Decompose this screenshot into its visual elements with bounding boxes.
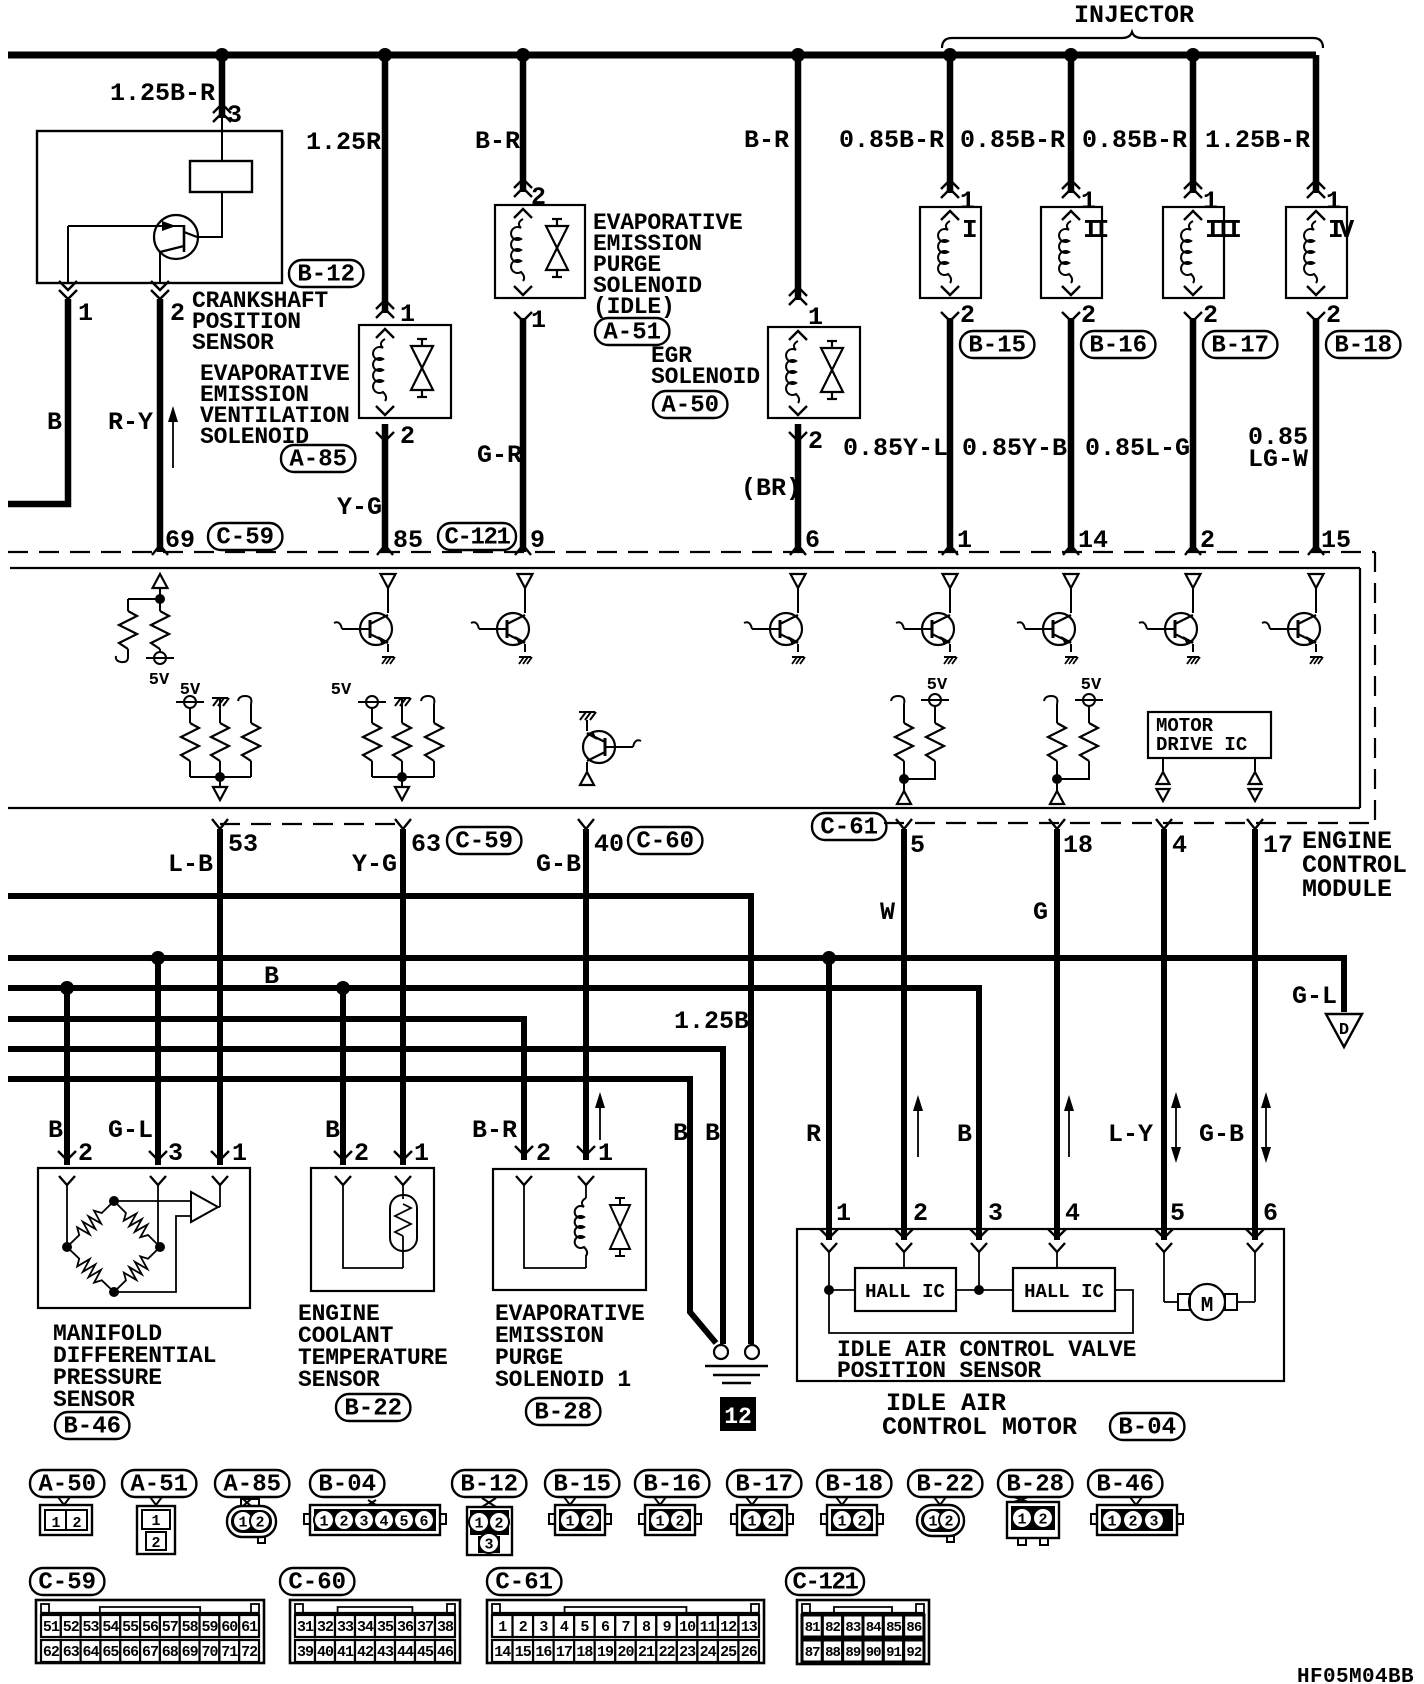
svg-text:0.85B-R: 0.85B-R: [1082, 126, 1187, 155]
svg-text:2: 2: [808, 427, 823, 456]
svg-text:2: 2: [170, 299, 185, 328]
svg-text:D: D: [1339, 1021, 1349, 1040]
svg-text:85: 85: [886, 1620, 901, 1636]
svg-text:1: 1: [1017, 1512, 1026, 1529]
svg-text:C-61: C-61: [820, 815, 878, 842]
engine control module dashed border bottom segments: [220, 823, 403, 825]
svg-text:1.25B-R: 1.25B-R: [110, 79, 215, 108]
bridge resistor bottom-right: [114, 1247, 160, 1292]
ecm bottom pin 17: [1247, 819, 1263, 829]
svg-text:2: 2: [1326, 301, 1341, 330]
hall ic 1 box: [855, 1268, 956, 1311]
connector A-50 drawing: [58, 1497, 70, 1505]
svg-text:40: 40: [317, 1644, 334, 1661]
svg-text:1: 1: [598, 1139, 613, 1168]
connector pill B-12: [289, 260, 363, 287]
svg-text:4: 4: [1172, 831, 1187, 860]
svg-text:33: 33: [337, 1619, 354, 1636]
svg-text:L-B: L-B: [168, 850, 213, 879]
svg-text:13: 13: [741, 1619, 758, 1636]
pin 2 chevrons injector IV: [1307, 312, 1325, 321]
flow arrow iac pin2: [917, 1103, 919, 1157]
svg-text:81: 81: [805, 1620, 820, 1636]
svg-text:G-B: G-B: [1199, 1120, 1244, 1149]
svg-text:5V: 5V: [149, 671, 170, 690]
svg-text:45: 45: [417, 1644, 434, 1661]
opamp input wiring: [114, 1200, 191, 1202]
svg-text:1: 1: [474, 1516, 483, 1533]
svg-text:1.25B-R: 1.25B-R: [1205, 126, 1310, 155]
svg-text:2: 2: [72, 1515, 81, 1532]
svg-text:G-B: G-B: [536, 850, 581, 879]
svg-text:25: 25: [720, 1644, 737, 1661]
connector pill B-17: [1203, 331, 1277, 358]
svg-text:3: 3: [227, 101, 242, 130]
svg-text:SOLENOID: SOLENOID: [651, 364, 760, 390]
svg-text:1: 1: [78, 299, 93, 328]
svg-text:B-R: B-R: [475, 127, 520, 156]
svg-text:B: B: [673, 1119, 688, 1148]
svg-text:1: 1: [232, 1139, 247, 1168]
motor drive IC box: [1148, 712, 1271, 758]
flow arrow purge pin1: [599, 1100, 601, 1140]
svg-text:DRIVE IC: DRIVE IC: [1156, 734, 1247, 756]
svg-text:1: 1: [319, 1514, 328, 1531]
connector pill B-28: [526, 1398, 600, 1425]
transistor ecm column x=1193: [1186, 574, 1201, 588]
svg-text:71: 71: [221, 1644, 238, 1661]
svg-text:SENSOR: SENSOR: [298, 1367, 380, 1393]
svg-text:B-17: B-17: [1211, 333, 1269, 360]
svg-text:B: B: [705, 1119, 720, 1148]
svg-text:1: 1: [238, 1515, 247, 1532]
wire 1.25B-R bus to injector IV pin 1: [1313, 55, 1320, 193]
connector pill B-15 bottom: [545, 1470, 619, 1497]
svg-text:9: 9: [530, 526, 545, 555]
svg-text:3: 3: [539, 1619, 548, 1636]
connector B-28 drawing: [1014, 1497, 1028, 1502]
svg-text:1: 1: [747, 1514, 756, 1531]
connector pill B-46: [55, 1412, 129, 1439]
wire G pin 18 to iac motor pin 4: [1054, 829, 1060, 1240]
svg-text:58: 58: [182, 1619, 199, 1636]
bus line 6 to ground diagonal: [8, 1079, 716, 1343]
wire injector I pin2 to ECM: [947, 318, 954, 552]
svg-text:9: 9: [663, 1619, 672, 1636]
idle air control motor B-04 box: [797, 1229, 1284, 1381]
connector C-61 drawing: [487, 1600, 764, 1663]
svg-text:6: 6: [419, 1514, 428, 1531]
ground transistor pin85: [382, 656, 394, 658]
svg-text:72: 72: [241, 1644, 258, 1661]
svg-text:32: 32: [317, 1619, 334, 1636]
svg-text:C-59: C-59: [455, 829, 513, 856]
connector B-22 drawing: [934, 1497, 946, 1505]
wire W pin 5 to iac motor pin 2: [901, 829, 907, 1240]
svg-text:20: 20: [617, 1644, 634, 1661]
transistor ecm pin 85: [381, 574, 396, 588]
svg-text:2: 2: [960, 301, 975, 330]
resistor network pin 69: [128, 598, 160, 600]
svg-text:1: 1: [565, 1514, 574, 1531]
svg-text:5: 5: [1170, 1199, 1185, 1228]
svg-text:54: 54: [102, 1619, 119, 1636]
connector C-60 drawing: [290, 1600, 460, 1663]
svg-text:26: 26: [741, 1644, 758, 1661]
injector III coil: [1181, 221, 1194, 283]
svg-text:18: 18: [576, 1644, 593, 1661]
svg-text:C-121: C-121: [792, 1570, 858, 1597]
svg-text:53: 53: [228, 830, 258, 859]
flow arrow up beside R-Y: [172, 414, 174, 468]
svg-text:69: 69: [165, 526, 195, 555]
svg-text:5V: 5V: [331, 681, 352, 700]
ecm pin 69: [152, 545, 168, 555]
ecm pin 6: [790, 545, 806, 555]
svg-text:37: 37: [417, 1619, 433, 1636]
svg-text:B-16: B-16: [1089, 333, 1147, 360]
svg-text:2: 2: [767, 1514, 776, 1531]
svg-text:6: 6: [805, 526, 820, 555]
solenoid coil A-51: [511, 219, 524, 281]
iac motor M: [1189, 1284, 1225, 1320]
svg-text:A-50: A-50: [38, 1472, 96, 1499]
connector pill B-16 bottom: [635, 1470, 709, 1497]
wire 0.85B-R bus to injector III pin 1: [1190, 55, 1197, 193]
svg-text:B-04: B-04: [1118, 1415, 1176, 1442]
svg-text:B-28: B-28: [1006, 1472, 1064, 1499]
evaporative emission purge solenoid 1 B-28 box: [493, 1169, 646, 1290]
svg-text:39: 39: [297, 1644, 314, 1661]
svg-text:POSITION SENSOR: POSITION SENSOR: [837, 1358, 1041, 1384]
svg-text:A-85: A-85: [289, 447, 347, 474]
transistor ecm column x=950: [943, 574, 958, 588]
svg-text:HALL IC: HALL IC: [865, 1281, 945, 1303]
svg-text:12: 12: [724, 1404, 752, 1430]
svg-text:67: 67: [142, 1644, 158, 1661]
manifold differential pressure sensor B-46 box: [38, 1168, 250, 1308]
pin 2 chevrons A-85: [376, 432, 394, 441]
svg-text:2: 2: [519, 1619, 528, 1636]
purge solenoid valve: [610, 1205, 630, 1227]
engine coolant temperature sensor B-22 box: [311, 1168, 434, 1291]
svg-text:51: 51: [43, 1619, 60, 1636]
egr solenoid A-50 box: [768, 327, 860, 418]
bridge resistor bottom-left: [67, 1247, 114, 1292]
svg-text:3: 3: [484, 1537, 493, 1554]
wire emitter to pin 2: [159, 252, 161, 283]
svg-text:1: 1: [151, 1513, 160, 1530]
svg-text:64: 64: [83, 1644, 100, 1661]
crankshaft position sensor B-12 box: [37, 131, 282, 283]
ecm bottom pin 5: [896, 819, 912, 829]
wire pin3 to pickup: [221, 131, 223, 161]
connector pill C-59 bottom-row: [30, 1568, 104, 1595]
pin 2 chevrons: [151, 290, 169, 299]
wire B line3 to coolant sensor pin 2: [340, 988, 346, 1165]
pin 2 chevrons injector III: [1184, 312, 1202, 321]
5V pullup pair for pin 18: [1044, 696, 1057, 704]
injector I box: [920, 207, 981, 298]
pin 2 chevrons EGR: [789, 432, 807, 441]
svg-text:B-22: B-22: [916, 1472, 974, 1499]
svg-text:83: 83: [845, 1620, 860, 1636]
svg-text:42: 42: [357, 1644, 374, 1661]
flow arrows iac pin6: [1265, 1100, 1267, 1155]
solenoid valve A-85: [411, 346, 433, 368]
svg-text:1: 1: [655, 1514, 664, 1531]
svg-text:B-15: B-15: [968, 333, 1026, 360]
svg-text:53: 53: [83, 1619, 100, 1636]
sensor ground bus line 2 to diode D: [8, 958, 1344, 1012]
svg-text:38: 38: [437, 1619, 454, 1636]
ecm bottom pin 4: [1156, 819, 1172, 829]
svg-text:1: 1: [414, 1139, 429, 1168]
injector II box: [1041, 207, 1102, 298]
transistor Q1 inside crankshaft sensor: [154, 215, 198, 259]
svg-text:24: 24: [700, 1644, 717, 1661]
svg-text:HALL IC: HALL IC: [1024, 1281, 1104, 1303]
svg-text:2: 2: [1128, 1514, 1137, 1531]
svg-text:B: B: [48, 1116, 63, 1145]
svg-text:B: B: [325, 1116, 340, 1145]
svg-text:L-Y: L-Y: [1108, 1120, 1153, 1149]
connector pill B-28 bottom: [998, 1470, 1072, 1497]
wire main battery bus: [8, 52, 1316, 59]
solenoid coil EGR: [786, 341, 799, 403]
svg-text:LG-W: LG-W: [1248, 445, 1308, 474]
svg-text:1: 1: [1326, 187, 1341, 216]
chevron inside A-51 top: [514, 209, 532, 218]
svg-text:61: 61: [241, 1619, 258, 1636]
chevron inside EGR top: [789, 331, 807, 340]
svg-text:G-R: G-R: [477, 441, 522, 470]
svg-text:23: 23: [679, 1644, 696, 1661]
svg-text:44: 44: [397, 1644, 414, 1661]
svg-text:2: 2: [494, 1516, 503, 1533]
svg-text:B-16: B-16: [643, 1472, 701, 1499]
connector pill A-85: [281, 445, 355, 472]
pin 1 chevrons mdp: [211, 1151, 229, 1160]
svg-text:59: 59: [201, 1619, 218, 1636]
solenoid valve EGR: [821, 348, 843, 370]
svg-text:4: 4: [560, 1619, 569, 1636]
transistor ecm column x=1316: [1309, 574, 1324, 588]
pin 1 chevrons purge1: [577, 1146, 595, 1155]
connector B-16 drawing: [654, 1497, 666, 1505]
ecm bottom pin 40: [578, 819, 594, 829]
svg-text:B-04: B-04: [318, 1472, 376, 1499]
svg-text:C-59: C-59: [38, 1570, 96, 1597]
svg-text:85: 85: [393, 526, 423, 555]
transistor ecm pin 9: [518, 574, 533, 588]
connector pill A-85 bottom: [215, 1470, 289, 1497]
junction on bus at x=798: [791, 48, 805, 62]
connector A-85 drawing: [241, 1499, 259, 1506]
svg-text:INJECTOR: INJECTOR: [1074, 1, 1194, 30]
transistor ecm pin 40: [580, 712, 586, 720]
svg-text:5V: 5V: [1081, 676, 1102, 695]
chevron inside injector III top: [1184, 211, 1202, 220]
svg-text:15: 15: [515, 1644, 532, 1661]
svg-text:41: 41: [337, 1644, 354, 1661]
wire 1.25R bus to A-85 pin 1: [382, 55, 389, 313]
connector pill C-61 bottom-row: [487, 1568, 561, 1595]
pin 3 chevrons: [213, 104, 231, 113]
junction dots line3: [60, 981, 74, 995]
svg-text:15: 15: [1321, 526, 1351, 555]
svg-text:12: 12: [720, 1619, 737, 1636]
svg-text:70: 70: [201, 1644, 218, 1661]
5V pullup pair for pin 5: [891, 696, 904, 704]
bridge resistor top-left: [67, 1201, 114, 1247]
svg-text:W: W: [880, 898, 895, 927]
svg-text:B-46: B-46: [63, 1414, 121, 1441]
svg-text:2: 2: [1200, 526, 1215, 555]
svg-text:69: 69: [182, 1644, 199, 1661]
svg-text:55: 55: [122, 1619, 139, 1636]
wire Y-G pin 63 to coolant sensor pin 1: [400, 829, 406, 1165]
svg-text:0.85B-R: 0.85B-R: [839, 126, 944, 155]
opamp output wire: [218, 1206, 220, 1208]
svg-text:1: 1: [498, 1619, 507, 1636]
motor drive ic output arrows right: [1254, 758, 1256, 771]
svg-text:B-18: B-18: [1334, 333, 1392, 360]
junction on bus at x=222: [215, 48, 229, 62]
svg-text:2: 2: [675, 1514, 684, 1531]
svg-text:II: II: [1083, 215, 1108, 245]
connector pill B-18 bottom: [817, 1470, 891, 1497]
svg-text:2: 2: [1203, 301, 1218, 330]
svg-text:5: 5: [910, 831, 925, 860]
svg-text:21: 21: [638, 1644, 655, 1661]
svg-text:22: 22: [659, 1644, 676, 1661]
svg-text:89: 89: [845, 1645, 860, 1661]
pin 1 chevrons A-51: [514, 312, 532, 321]
pin 3 chevrons mdp: [149, 1151, 167, 1160]
svg-text:40: 40: [594, 830, 624, 859]
svg-text:C-59: C-59: [216, 525, 274, 552]
junction on bus at x=523: [516, 48, 530, 62]
engine control module dashed border top: [8, 551, 1375, 553]
iac pins chevrons: [820, 1229, 838, 1238]
connector pill B-22 bottom: [908, 1470, 982, 1497]
wire B-R bus to EGR pin 1: [795, 55, 802, 300]
svg-text:84: 84: [866, 1620, 881, 1636]
svg-text:88: 88: [825, 1645, 840, 1661]
svg-text:1: 1: [1081, 187, 1096, 216]
svg-text:1: 1: [957, 526, 972, 555]
ecm pin 9: [515, 545, 531, 555]
svg-text:R: R: [806, 1120, 821, 1149]
svg-text:2: 2: [913, 1199, 928, 1228]
svg-text:46: 46: [437, 1644, 454, 1661]
connector C-121 drawing: [797, 1600, 929, 1664]
svg-text:5: 5: [399, 1514, 408, 1531]
svg-text:B-28: B-28: [534, 1400, 592, 1427]
ecm bottom pin 63: [395, 819, 411, 829]
svg-text:90: 90: [866, 1645, 881, 1661]
svg-text:5V: 5V: [180, 681, 201, 700]
chevron inside injector IV top: [1307, 211, 1325, 220]
svg-text:0.85B-R: 0.85B-R: [960, 126, 1065, 155]
motor drive ic output arrows left: [1162, 758, 1164, 771]
pin 1 chevrons injector I: [941, 180, 959, 189]
svg-text:7: 7: [621, 1619, 629, 1636]
connector pill B-04 bottom: [310, 1470, 384, 1497]
svg-text:5V: 5V: [927, 676, 948, 695]
svg-text:11: 11: [700, 1619, 717, 1636]
svg-text:3: 3: [359, 1514, 368, 1531]
hall wiring: [824, 1285, 834, 1295]
svg-text:66: 66: [122, 1644, 139, 1661]
connector pill B-04: [1110, 1413, 1184, 1440]
svg-text:1: 1: [51, 1515, 60, 1532]
svg-text:17: 17: [556, 1644, 572, 1661]
svg-text:3: 3: [168, 1139, 183, 1168]
svg-text:B: B: [957, 1120, 972, 1149]
pin 1 chevrons injector IV: [1307, 180, 1325, 189]
svg-text:(BR): (BR): [741, 474, 801, 503]
bridge wiring mdp: [66, 1185, 68, 1247]
chevron injector II bottom: [1062, 286, 1080, 295]
purge internal wiring: [585, 1255, 587, 1268]
svg-text:2: 2: [1081, 301, 1096, 330]
svg-text:SOLENOID 1: SOLENOID 1: [495, 1367, 631, 1393]
ecm input arrow pin 69: [153, 574, 168, 588]
svg-text:68: 68: [162, 1644, 179, 1661]
chevron inside injector I top: [941, 211, 959, 220]
wire pin69 internal: [159, 588, 161, 599]
svg-text:3: 3: [1149, 1514, 1158, 1531]
svg-text:2: 2: [1038, 1512, 1047, 1529]
svg-text:2: 2: [944, 1514, 953, 1531]
svg-text:C-60: C-60: [636, 829, 694, 856]
svg-text:1: 1: [1203, 187, 1218, 216]
svg-text:2: 2: [78, 1139, 93, 1168]
wire R line2 to iac motor pin 1: [826, 958, 832, 1240]
svg-text:92: 92: [906, 1645, 921, 1661]
bridge nodes: [109, 1196, 119, 1206]
svg-text:57: 57: [162, 1619, 178, 1636]
pin 2 chevrons injector I: [941, 312, 959, 321]
svg-text:63: 63: [411, 830, 441, 859]
svg-text:B-46: B-46: [1096, 1472, 1154, 1499]
svg-text:B-22: B-22: [344, 1396, 402, 1423]
pin 2 chevrons injector II: [1062, 312, 1080, 321]
svg-text:1: 1: [837, 1514, 846, 1531]
earth ground symbol: [705, 1365, 768, 1367]
diode pack triangle D: [1326, 1014, 1362, 1047]
svg-text:2: 2: [151, 1535, 160, 1552]
svg-text:87: 87: [805, 1645, 820, 1661]
connector pill B-12 bottom: [452, 1470, 526, 1497]
pin 1 chevrons ect: [394, 1151, 412, 1160]
wire B line3 to pressure sensor pin 2: [64, 988, 70, 1165]
svg-text:56: 56: [142, 1619, 159, 1636]
wire pin 4 to iac motor pin 5: [1161, 829, 1167, 1240]
svg-text:36: 36: [397, 1619, 414, 1636]
svg-text:0.85Y-L: 0.85Y-L: [843, 434, 948, 463]
connector B-12 drawing: [482, 1498, 496, 1507]
svg-text:CONTROL MOTOR: CONTROL MOTOR: [882, 1413, 1077, 1442]
svg-text:17: 17: [1263, 831, 1293, 860]
connector C-59 drawing: [36, 1600, 264, 1663]
connector B-46 drawing: [1130, 1497, 1142, 1505]
transistor ecm column x=798: [791, 574, 806, 588]
chevron injector IV bottom: [1307, 286, 1325, 295]
svg-text:G-L: G-L: [108, 1116, 153, 1145]
